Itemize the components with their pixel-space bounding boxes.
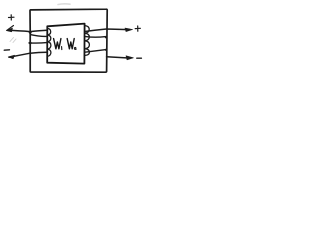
outer box (machine housing) [30,9,107,72]
inner box (machine core Wf/Wa) [47,24,84,64]
pencil hatch marks left margin [10,38,16,43]
wire: armature tap 3 [85,50,106,53]
pencil smudge above housing [58,3,70,6]
wire: field coil tap 3 [29,42,47,44]
output arrow (bottom-right) [126,56,133,60]
label Wa [67,39,74,49]
wire: right bus to - output [107,57,129,58]
output arrow (top-right) [125,28,133,32]
- terminal (input, bottom-left) [4,49,9,51]
wire: field coil tap 2 [30,35,47,37]
input arrow (bottom-left) [8,55,14,59]
field winding Wf coil (left edge loops) [47,28,51,56]
+ terminal (input, top-left) [9,15,15,20]
label Wf [54,39,61,49]
junction on right bus (middle) [105,36,107,38]
junction on left bus (middle) [29,42,32,45]
input arrow (top-left) [7,26,14,31]
+ terminal (output, top-right) [135,26,140,31]
wire: armature top to + output [86,29,129,31]
- terminal (output, bottom-right) [137,57,142,59]
wire: armature tap 2 [86,36,106,39]
junction on left bus (top) [29,31,32,34]
label Wa subscript [74,47,76,49]
armature winding Wa coil (right edge loops) [85,26,90,56]
wire: - input to field coil bottom [9,52,47,57]
junction on right bus (lower) [105,49,107,51]
label Wf subscript [61,47,63,50]
wire: + input to field coil top [8,30,47,31]
